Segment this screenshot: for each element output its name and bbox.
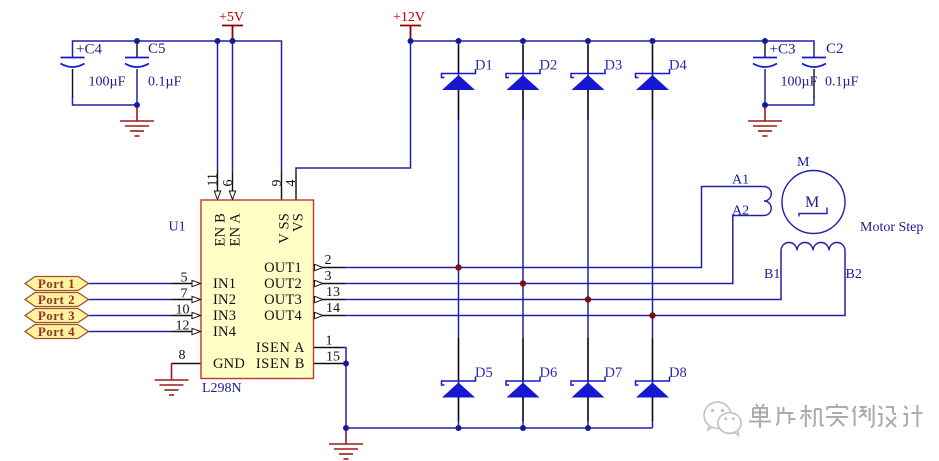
motor M circle	[782, 171, 845, 234]
wire +5V rail	[73, 41, 282, 172]
wire +12V rail	[411, 41, 815, 58]
wire pin11 drop	[217, 41, 219, 172]
glyph dan	[749, 404, 771, 428]
pin 3 arrow OUT2	[315, 280, 324, 286]
wire C3 upper lead	[764, 41, 766, 58]
svg-text:4: 4	[284, 180, 299, 187]
svg-text:GND: GND	[213, 356, 245, 372]
svg-text:100µF: 100µF	[781, 75, 818, 90]
svg-text:Port 2: Port 2	[38, 292, 75, 307]
junction dots red	[455, 264, 655, 318]
IC labels	[213, 213, 307, 372]
junction C5 bottom	[134, 102, 140, 108]
svg-text:+12V: +12V	[393, 10, 425, 25]
capacitor C3	[753, 58, 777, 68]
pin 2 arrow OUT1	[315, 264, 324, 270]
svg-text:EN A: EN A	[228, 213, 244, 247]
pin 7 arrow IN2	[192, 296, 201, 302]
wire C3 bottom	[764, 69, 766, 105]
junction ISEN	[343, 361, 349, 367]
wire C4 bottom	[73, 96, 138, 105]
wire diode column D3-D7	[587, 41, 589, 428]
diode D7	[571, 377, 605, 398]
IC pin numbers	[176, 173, 341, 364]
wire OUT2 to A2	[345, 216, 764, 284]
svg-text:A1: A1	[732, 173, 749, 188]
pin 6 stub	[232, 172, 234, 192]
svg-text:2: 2	[325, 253, 332, 268]
svg-text:Port 3: Port 3	[38, 308, 75, 323]
pin 11 arrow	[214, 191, 220, 200]
svg-text:1: 1	[326, 334, 333, 349]
pin 13 stub OUT3	[323, 299, 346, 301]
svg-text:VS: VS	[291, 213, 307, 232]
svg-text:B1: B1	[764, 267, 780, 282]
ground under C5	[120, 105, 154, 136]
junction OUT1-D1	[455, 264, 461, 270]
wire diode column D4-D8	[652, 41, 654, 428]
svg-text:3: 3	[325, 269, 332, 284]
svg-text:D5: D5	[475, 365, 493, 381]
port Port 2	[25, 293, 89, 307]
pin 10 stub IN3	[172, 315, 193, 317]
pin 4 stub	[295, 172, 297, 200]
pin 5 arrow IN1	[192, 280, 201, 286]
capacitor C2	[802, 58, 826, 68]
svg-text:OUT3: OUT3	[264, 292, 302, 308]
capacitor C5	[125, 58, 149, 68]
junction D1 top	[456, 38, 462, 44]
junction pin6	[230, 38, 236, 44]
svg-text:5: 5	[181, 271, 188, 286]
junction C5 top	[134, 38, 140, 44]
junction C3 bottom	[762, 102, 768, 108]
svg-text:A2: A2	[732, 204, 749, 219]
inductor coil phase B	[781, 243, 845, 251]
svg-text:IN4: IN4	[213, 324, 237, 340]
svg-text:M: M	[805, 194, 819, 211]
wire D4 leads	[652, 45, 654, 120]
wire C2 lower lead	[813, 69, 815, 98]
inductor coil phase A	[764, 187, 771, 216]
svg-text:ISEN B: ISEN B	[256, 356, 305, 372]
svg-text:0.1µF: 0.1µF	[148, 75, 182, 90]
port Port 3	[25, 309, 89, 323]
diode D1	[442, 69, 476, 90]
capacitor C4	[61, 58, 85, 68]
glyph shi	[826, 404, 848, 426]
diode D6	[506, 377, 540, 398]
junction C3 top	[762, 38, 768, 44]
BLACK-SEGMENTS	[73, 41, 815, 421]
wire D6 leads	[522, 338, 524, 421]
glyph pian	[776, 407, 795, 426]
junction +12V	[408, 38, 414, 44]
wire D3 leads	[587, 45, 589, 120]
junction D5 bottom	[456, 425, 462, 431]
svg-text:Port 1: Port 1	[38, 276, 75, 291]
svg-text:U1: U1	[169, 220, 186, 235]
wire port3 to IN3	[89, 315, 172, 317]
svg-text:8: 8	[179, 348, 186, 363]
junction D2 top	[520, 38, 526, 44]
wire diode column D2-D6	[522, 41, 524, 428]
pin 6 arrow	[229, 191, 235, 200]
wire port1 to IN1	[89, 283, 172, 285]
glyph ji	[801, 405, 824, 427]
power +5V	[219, 10, 244, 41]
svg-text:EN B: EN B	[213, 213, 229, 246]
junction dots blue	[134, 38, 768, 431]
diode D5	[442, 377, 476, 398]
wire pin6 drop	[232, 41, 234, 172]
port Port 1	[25, 277, 89, 291]
power +12V	[393, 10, 425, 41]
wire C4 lower lead	[72, 69, 74, 97]
ground bottom rail	[329, 428, 363, 459]
junction D7 bottom	[585, 425, 591, 431]
wire ISEN join	[344, 348, 347, 364]
wire D7 leads	[587, 338, 589, 421]
svg-text:12: 12	[176, 319, 190, 334]
diode D2	[506, 69, 540, 90]
svg-text:OUT1: OUT1	[264, 260, 302, 276]
wechat logo watermark small bubble	[718, 413, 741, 436]
pin 15 stub ISENB	[314, 363, 344, 365]
svg-text:9: 9	[270, 180, 285, 187]
pin 14 arrow OUT4	[315, 312, 324, 318]
pin 2 stub OUT1	[323, 267, 346, 269]
pin 1 stub ISENA	[314, 347, 344, 349]
pin 12 stub IN4	[172, 331, 193, 333]
ground pin8	[155, 364, 189, 396]
pin 7 stub IN2	[172, 299, 193, 301]
wire diode column D1-D5	[458, 41, 460, 428]
svg-text:13: 13	[326, 285, 340, 300]
wire ISEN to ground rail	[346, 364, 653, 429]
wire VS net	[296, 41, 411, 172]
junction D3 top	[585, 38, 591, 44]
wire C5 upper lead	[136, 41, 138, 58]
svg-text:IN1: IN1	[213, 276, 236, 292]
pin 5 stub IN1	[172, 283, 193, 285]
junction OUT3-D3	[585, 296, 591, 302]
pin 13 arrow OUT3	[315, 296, 324, 302]
diode D8	[636, 377, 670, 398]
diode D4	[636, 69, 670, 90]
svg-text:15: 15	[326, 350, 340, 365]
wire port2 to IN2	[89, 299, 172, 301]
wire OUT3 to B1	[345, 251, 781, 300]
svg-text:OUT2: OUT2	[264, 276, 302, 292]
op-amp U1 L298N IC body	[201, 200, 314, 379]
ground under C3	[748, 105, 782, 136]
svg-text:Motor Step: Motor Step	[860, 220, 923, 235]
svg-text:M: M	[797, 155, 810, 170]
svg-text:D2: D2	[540, 58, 558, 74]
wire D1 leads	[458, 45, 460, 120]
wire D5 leads	[458, 338, 460, 421]
WIRES-BLUE	[73, 41, 846, 428]
svg-text:D7: D7	[605, 365, 623, 381]
pin 8 stub GND	[172, 363, 202, 365]
svg-text:Port 4: Port 4	[38, 324, 75, 339]
junction D6 bottom	[520, 425, 526, 431]
junction pin11	[215, 38, 221, 44]
pin 3 stub OUT2	[323, 283, 346, 285]
svg-text:C2: C2	[826, 41, 844, 57]
watermark text 单片机实例设计	[750, 405, 923, 429]
svg-text:14: 14	[326, 301, 340, 316]
svg-text:D6: D6	[540, 365, 558, 381]
wechat logo watermark big bubble	[704, 402, 731, 430]
svg-text:D8: D8	[669, 365, 687, 381]
pin 9 stub	[281, 172, 283, 200]
wire OUT1 to A1	[345, 187, 764, 268]
glyph she	[878, 406, 896, 427]
svg-text:IN3: IN3	[213, 308, 236, 324]
svg-text:+5V: +5V	[219, 10, 244, 25]
svg-text:100µF: 100µF	[89, 75, 126, 90]
svg-text:D4: D4	[669, 58, 687, 74]
junction ground rail	[343, 425, 349, 431]
svg-text:IN2: IN2	[213, 292, 236, 308]
svg-text:7: 7	[181, 287, 188, 302]
wire OUT4 to B2	[345, 251, 845, 316]
wire D8 leads	[652, 338, 654, 421]
svg-text:ISEN A: ISEN A	[256, 340, 305, 356]
svg-text:D3: D3	[605, 58, 623, 74]
pin 10 arrow IN3	[192, 312, 201, 318]
svg-text:L298N: L298N	[202, 381, 242, 396]
svg-text:+C4: +C4	[76, 42, 102, 58]
pin 11 stub	[217, 172, 219, 192]
svg-text:D1: D1	[475, 58, 493, 74]
junction D4 top	[650, 38, 656, 44]
wire D2 leads	[522, 45, 524, 120]
glyph li	[853, 405, 874, 427]
junction OUT2-D2	[520, 280, 526, 286]
pin 12 arrow IN4	[192, 328, 201, 334]
svg-text:C5: C5	[148, 41, 166, 57]
svg-text:B2: B2	[846, 267, 862, 282]
wire C2 bottom	[765, 97, 814, 105]
port Port 4	[25, 325, 89, 339]
pin 14 stub OUT4	[323, 315, 346, 317]
svg-text:OUT4: OUT4	[264, 308, 302, 324]
svg-text:10: 10	[176, 303, 190, 318]
diode D3	[571, 69, 605, 90]
svg-text:6: 6	[221, 180, 236, 187]
wire C5 bottom	[136, 69, 138, 105]
wire port4 to IN4	[89, 331, 172, 333]
glyph ji2	[903, 405, 922, 427]
svg-text:+C3: +C3	[770, 42, 796, 58]
svg-text:0.1µF: 0.1µF	[825, 75, 859, 90]
svg-text:11: 11	[206, 173, 221, 186]
junction OUT4-D4	[649, 312, 655, 318]
